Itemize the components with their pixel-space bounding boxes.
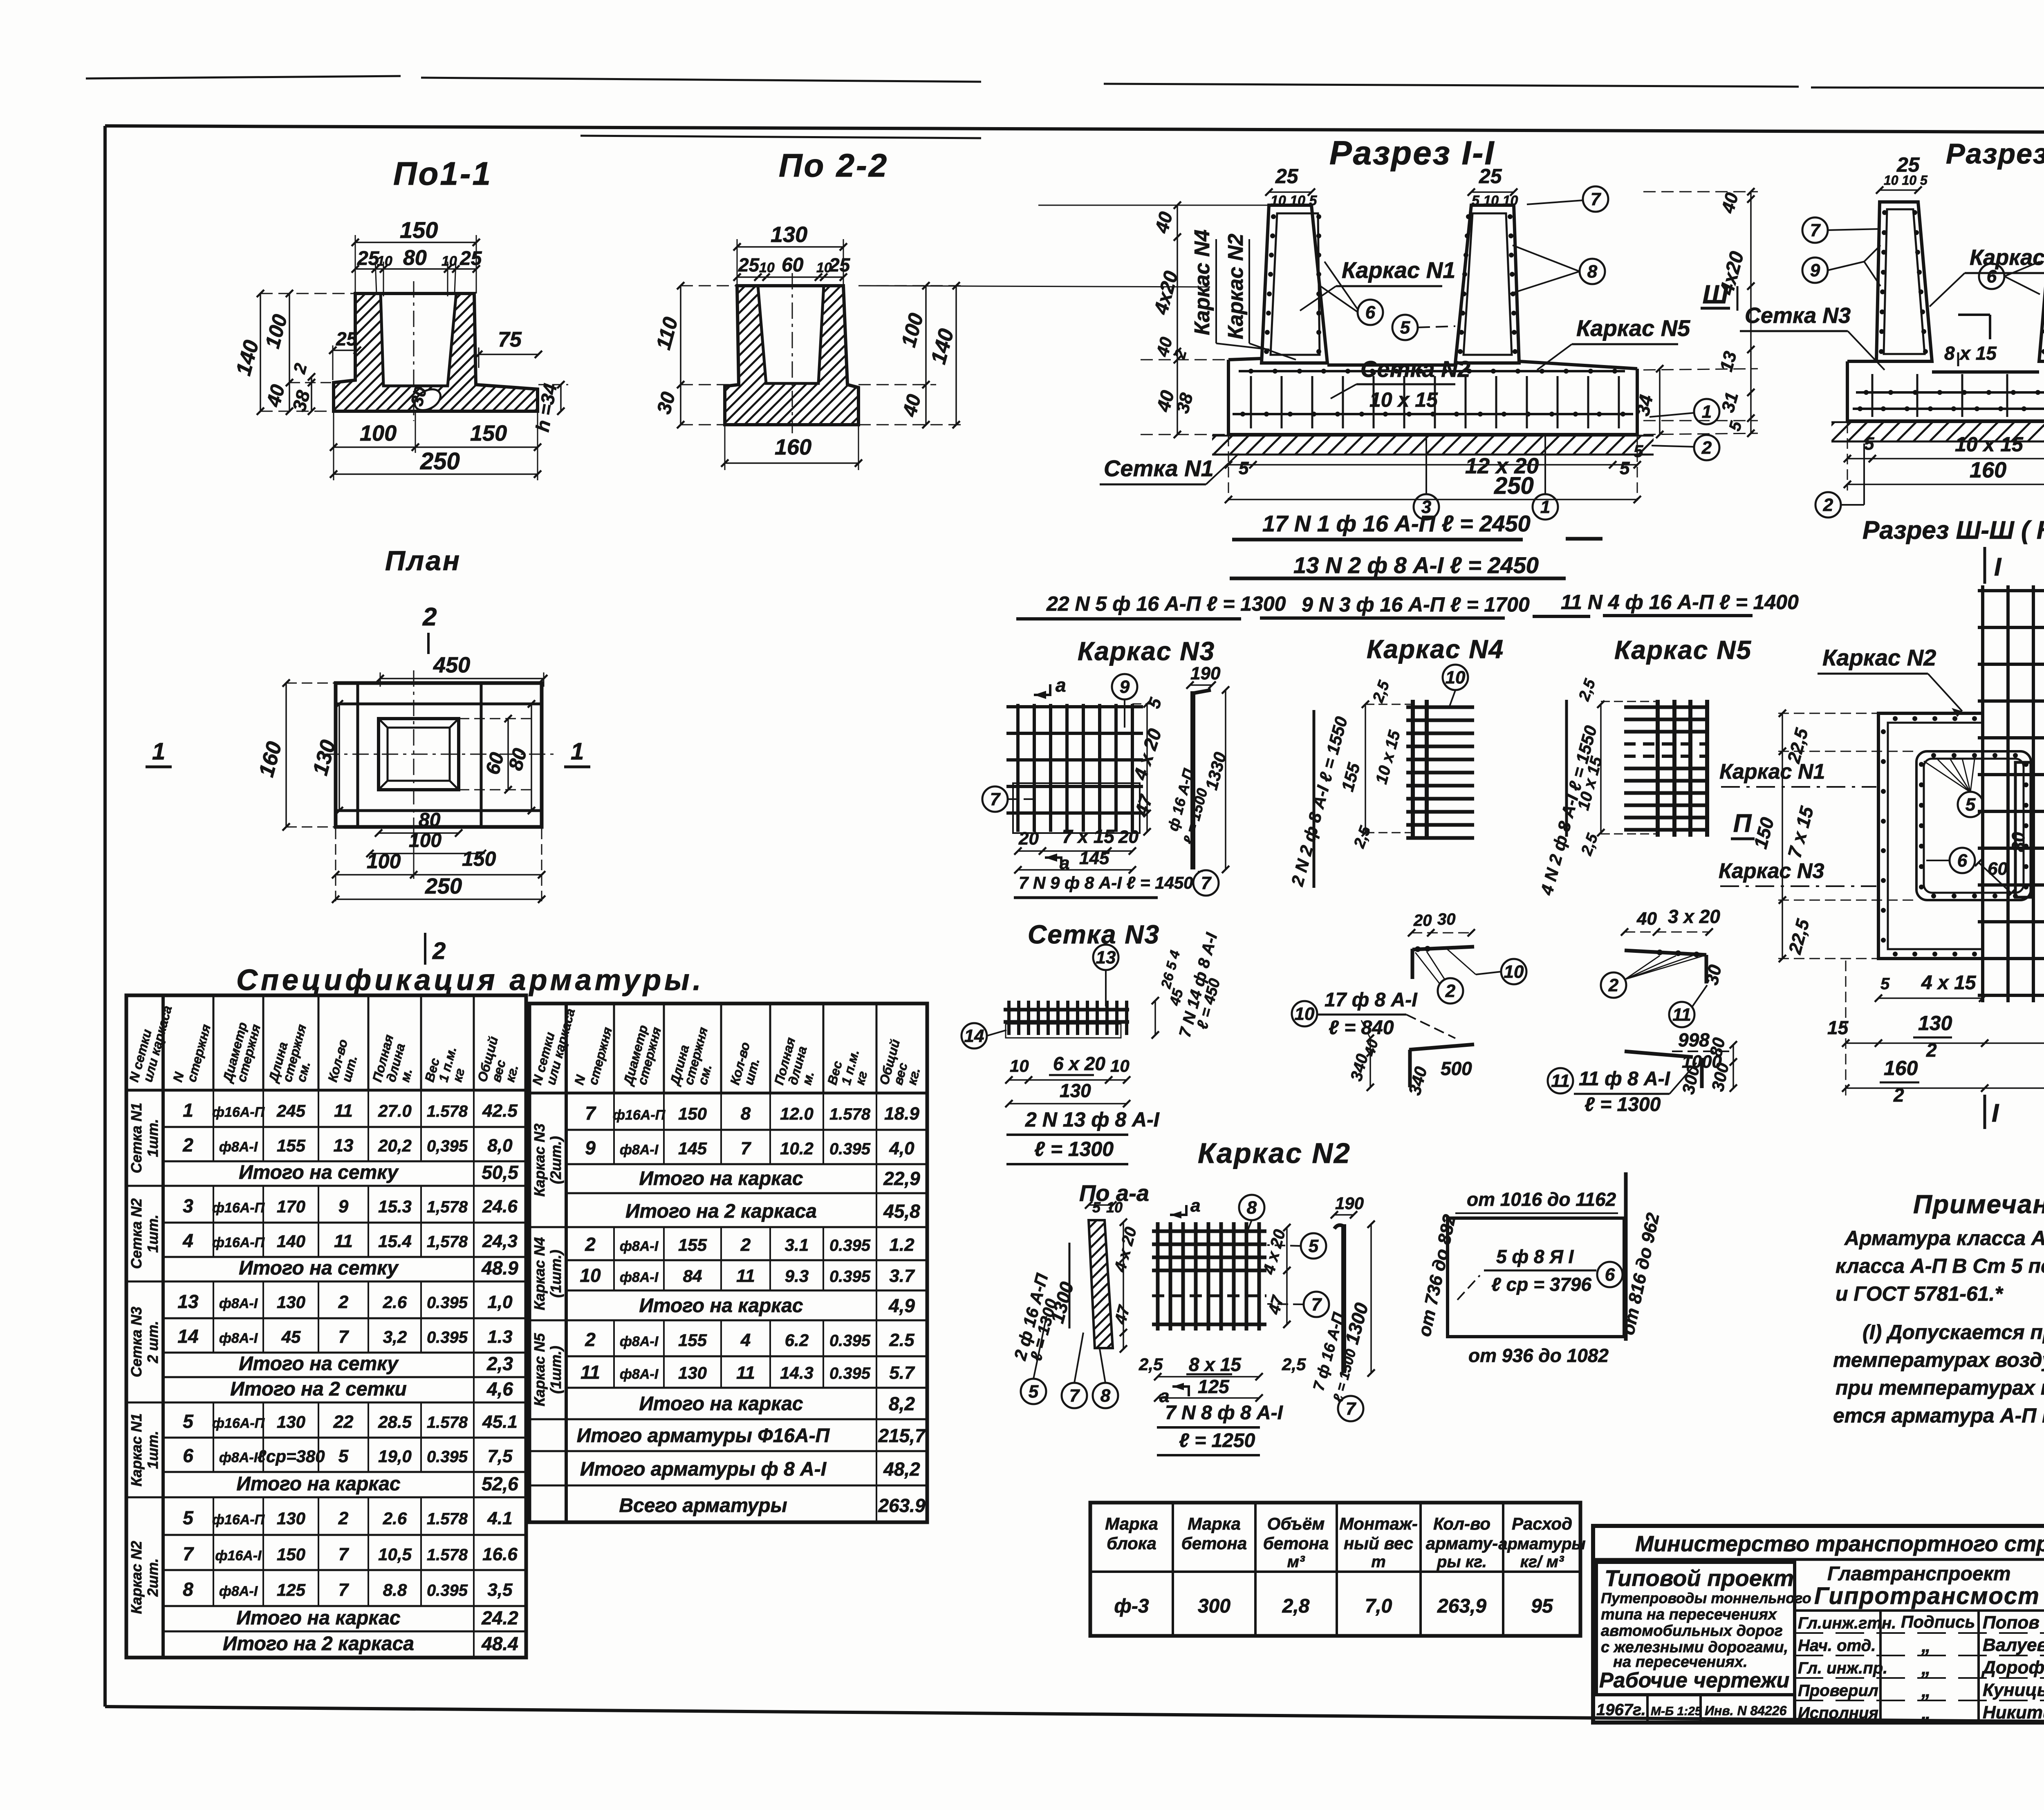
svg-text:10: 10 xyxy=(377,253,392,269)
svg-text:2: 2 xyxy=(740,1235,751,1255)
I-I leader circle 3 xyxy=(1414,494,1439,520)
svg-text:7 N 9 ф 8 А-I ℓ = 1450: 7 N 9 ф 8 А-I ℓ = 1450 xyxy=(1019,873,1193,892)
svg-text:5: 5 xyxy=(1092,1199,1101,1216)
svg-text:Всего арматуры: Всего арматуры xyxy=(619,1495,787,1517)
Каркас N2 circle 5 right xyxy=(1301,1233,1326,1259)
III-III leader circle 6 xyxy=(1950,848,1975,873)
svg-text:450: 450 xyxy=(433,653,470,677)
svg-text:3,2: 3,2 xyxy=(383,1327,407,1346)
svg-text:60: 60 xyxy=(1988,859,2008,879)
svg-text:75: 75 xyxy=(498,328,522,352)
svg-text:и ГОСТ 5781-61.*: и ГОСТ 5781-61.* xyxy=(1836,1282,2004,1305)
svg-text:7 N 8 ф 8 А-I: 7 N 8 ф 8 А-I xyxy=(1165,1402,1284,1424)
svg-text:Каркас N3: Каркас N3 xyxy=(1078,636,1215,666)
II-II left wall xyxy=(1876,202,1932,361)
План bottom dims 80 100 100 150 250 xyxy=(379,832,459,834)
svg-text:от 936 до 1082: от 936 до 1082 xyxy=(1468,1345,1609,1366)
svg-text:1.578: 1.578 xyxy=(427,1102,468,1120)
III-III bottom dims row 160/2 160/2 xyxy=(1846,1087,2044,1089)
svg-text:Расход: Расход xyxy=(1512,1514,1572,1533)
svg-text:215,7: 215,7 xyxy=(878,1425,926,1446)
I-I leader circle 8 xyxy=(1580,259,1605,284)
svg-text:100: 100 xyxy=(367,850,401,873)
svg-text:2: 2 xyxy=(1445,981,1456,1001)
svg-text:7: 7 xyxy=(1201,873,1212,893)
svg-text:13: 13 xyxy=(1096,948,1116,968)
svg-text:80: 80 xyxy=(1706,1036,1729,1058)
Сетка N3 leader circle 14 xyxy=(961,1023,987,1048)
Каркас N3 zone box xyxy=(1013,783,1140,833)
I-I top dim left wall 25 xyxy=(1269,191,1311,193)
II-II ground hatch strip xyxy=(1831,421,2044,423)
svg-text:7,5: 7,5 xyxy=(487,1446,513,1466)
svg-text:Каркас N2: Каркас N2 xyxy=(1198,1137,1351,1169)
svg-text:2: 2 xyxy=(585,1329,596,1350)
svg-text:8 x 15: 8 x 15 xyxy=(1944,343,1997,364)
svg-text:14: 14 xyxy=(964,1026,984,1046)
I-I leader circle 7 xyxy=(1583,186,1608,212)
projection line По2-2 top xyxy=(862,286,1210,287)
По1-1 bottom dims 100 150 250 xyxy=(334,446,538,448)
svg-text:П: П xyxy=(1733,809,1752,838)
svg-text:2,3: 2,3 xyxy=(486,1353,513,1374)
По2-2 centre axis xyxy=(792,273,793,433)
По1-1 dim 150 top xyxy=(355,242,476,243)
Каркас N4 mesh xyxy=(1411,700,1415,838)
svg-text:11: 11 xyxy=(334,1101,353,1121)
svg-text:Проверил: Проверил xyxy=(1798,1682,1878,1700)
svg-text:7,0: 7,0 xyxy=(1365,1595,1392,1617)
svg-text:1: 1 xyxy=(1702,402,1712,422)
svg-text:Каркас N4: Каркас N4 xyxy=(1190,230,1214,335)
svg-text:Итого на сетку: Итого на сетку xyxy=(239,1257,399,1279)
svg-text:20: 20 xyxy=(1413,912,1432,930)
svg-text:13: 13 xyxy=(177,1291,199,1312)
svg-text:Кол-во: Кол-во xyxy=(1433,1514,1490,1533)
svg-text:13: 13 xyxy=(334,1136,354,1156)
III-III section mark I top xyxy=(1983,547,1986,584)
svg-text:По1-1: По1-1 xyxy=(393,155,492,192)
svg-text:10: 10 xyxy=(1446,668,1466,688)
svg-text:1,0: 1,0 xyxy=(487,1292,513,1312)
svg-text:Сетка N3: Сетка N3 xyxy=(1028,920,1160,949)
svg-text:22,9: 22,9 xyxy=(883,1168,920,1189)
svg-text:Итого на сетку: Итого на сетку xyxy=(239,1353,399,1375)
svg-text:8: 8 xyxy=(183,1579,193,1600)
svg-text:25: 25 xyxy=(357,248,380,269)
svg-text:7: 7 xyxy=(741,1138,752,1158)
sheet border frame xyxy=(105,126,2044,133)
Каркас N2 bar circle 7 xyxy=(1338,1396,1363,1421)
По1-1 dim h2=34 xyxy=(560,385,562,411)
svg-text:ℓ = 1300: ℓ = 1300 xyxy=(1585,1094,1661,1116)
svg-text:5: 5 xyxy=(1620,458,1630,478)
svg-text:9: 9 xyxy=(1810,260,1820,280)
svg-text:1: 1 xyxy=(571,738,584,765)
svg-text:Каркас N2: Каркас N2 xyxy=(128,1541,145,1614)
III-III bottom dim 4x15 xyxy=(1878,997,1983,999)
svg-text:План: План xyxy=(385,545,461,576)
svg-text:ф8А-I: ф8А-I xyxy=(219,1331,258,1346)
svg-text:34: 34 xyxy=(1632,393,1657,418)
svg-text:4: 4 xyxy=(182,1230,193,1251)
I-I leader circle 2 right xyxy=(1694,435,1719,460)
svg-text:3.1: 3.1 xyxy=(785,1235,809,1254)
svg-text:Рабочие чертежи: Рабочие чертежи xyxy=(1599,1669,1789,1692)
svg-text:10 x 15: 10 x 15 xyxy=(1369,388,1438,411)
detail text 17ф8А-I l=840 xyxy=(1292,1001,1317,1026)
svg-text:8,2: 8,2 xyxy=(889,1393,915,1414)
svg-text:2: 2 xyxy=(1823,495,1833,515)
svg-text:Итого арматуры ф 8 А-I: Итого арматуры ф 8 А-I xyxy=(580,1458,827,1480)
svg-text:кг/ м³: кг/ м³ xyxy=(1520,1553,1564,1571)
svg-text:20,2: 20,2 xyxy=(378,1136,412,1155)
Сетка N3 mesh xyxy=(1004,1008,1129,1012)
svg-text:„: „ xyxy=(1921,1702,1931,1723)
svg-text:3: 3 xyxy=(183,1195,193,1216)
Каркас N2 circle 8 top xyxy=(1239,1195,1264,1220)
svg-text:Итого на сетку: Итого на сетку xyxy=(239,1162,399,1183)
svg-text:ф16А-П: ф16А-П xyxy=(212,1104,265,1120)
svg-text:10: 10 xyxy=(759,260,775,276)
svg-text:7 x 15: 7 x 15 xyxy=(1062,826,1115,847)
svg-text:ф16А-П: ф16А-П xyxy=(212,1235,265,1250)
detail circle 10 left xyxy=(1501,959,1526,984)
svg-text:По 2-2: По 2-2 xyxy=(779,147,888,184)
svg-text:I: I xyxy=(1994,553,2002,581)
svg-text:ется арматура А-П В Ст 5 сп: ется арматура А-П В Ст 5 сп 2. xyxy=(1833,1404,2044,1427)
II-II slab rebar xyxy=(1856,391,2044,394)
block data table grid xyxy=(1090,1503,1580,1636)
svg-text:Никитина: Никитина xyxy=(1983,1702,2044,1723)
svg-text:8.8: 8.8 xyxy=(383,1580,407,1599)
svg-text:ры кг.: ры кг. xyxy=(1437,1553,1487,1571)
svg-text:155: 155 xyxy=(678,1331,707,1350)
Каркас N3 side bar circle 7 xyxy=(1193,870,1219,896)
По1-1 dim 75 right xyxy=(479,354,538,355)
svg-text:125: 125 xyxy=(277,1580,306,1599)
svg-text:2: 2 xyxy=(1608,975,1619,995)
svg-text:48.9: 48.9 xyxy=(481,1257,518,1279)
svg-text:Каркас N3: Каркас N3 xyxy=(531,1124,548,1197)
svg-text:Итого арматуры Ф16А-П: Итого арматуры Ф16А-П xyxy=(577,1425,830,1447)
svg-text:Сетка N1: Сетка N1 xyxy=(128,1103,145,1174)
svg-text:2.6: 2.6 xyxy=(383,1293,407,1312)
svg-text:Каркас N2: Каркас N2 xyxy=(1224,234,1248,339)
III-III left dims 22,5 7x15 22,5 150 xyxy=(1782,713,1783,959)
svg-text:150: 150 xyxy=(678,1104,707,1123)
svg-text:Итого на каркас: Итого на каркас xyxy=(639,1168,803,1189)
svg-text:10: 10 xyxy=(442,253,457,269)
Каркас N3 mark a top xyxy=(1034,684,1050,695)
svg-text:24,3: 24,3 xyxy=(482,1231,518,1251)
svg-text:Каркас N1: Каркас N1 xyxy=(1719,760,1825,784)
Каркас N2 mesh xyxy=(1156,1222,1160,1331)
Каркас N3 mark a bottom xyxy=(1045,858,1061,868)
Сетка N3 leader circle 13 xyxy=(1093,945,1118,970)
svg-text:10: 10 xyxy=(1010,1056,1029,1075)
svg-text:130: 130 xyxy=(771,222,807,247)
svg-text:3,5: 3,5 xyxy=(487,1580,513,1600)
left spec table grid xyxy=(126,995,526,1658)
Каркас N2 bottom dims 2,5 8x15 2,5 125 xyxy=(1158,1376,1259,1378)
svg-text:145: 145 xyxy=(678,1139,707,1158)
svg-text:130: 130 xyxy=(277,1293,305,1312)
svg-text:ф8А-I: ф8А-I xyxy=(219,1296,258,1311)
svg-text:300: 300 xyxy=(1198,1595,1230,1617)
svg-text:0.395: 0.395 xyxy=(829,1268,871,1286)
План centre axes xyxy=(413,670,415,842)
svg-text:4: 4 xyxy=(740,1330,751,1350)
svg-text:ф16А-П: ф16А-П xyxy=(212,1416,265,1431)
svg-text:19,0: 19,0 xyxy=(378,1447,412,1466)
I-I top dim right wall 25 xyxy=(1471,191,1514,193)
detail circle 11 right xyxy=(1669,1002,1694,1027)
svg-text:8: 8 xyxy=(1587,262,1598,282)
svg-text:М-Б 1:25: М-Б 1:25 xyxy=(1651,1705,1702,1718)
svg-text:ф8А-I: ф8А-I xyxy=(219,1584,258,1599)
svg-text:Гипротрансмост: Гипротрансмост xyxy=(1814,1583,2040,1609)
Каркас N3 mesh xyxy=(1016,704,1020,832)
svg-text:1шт.: 1шт. xyxy=(144,1431,161,1469)
svg-text:5: 5 xyxy=(1309,1236,1319,1256)
svg-text:2: 2 xyxy=(432,938,446,964)
svg-text:5: 5 xyxy=(1634,441,1643,461)
I-I leader circle 5 xyxy=(1392,315,1418,340)
detail bar 10 corner shape xyxy=(1411,949,1414,979)
svg-text:140: 140 xyxy=(277,1232,305,1251)
svg-text:„: „ xyxy=(1921,1657,1931,1678)
По1-1 left dim 140 xyxy=(260,293,261,411)
svg-text:бетона: бетона xyxy=(1181,1534,1247,1553)
svg-text:Итого на 2 каркаса: Итого на 2 каркаса xyxy=(625,1201,817,1222)
svg-text:ф-3: ф-3 xyxy=(1114,1595,1149,1617)
svg-text:22: 22 xyxy=(333,1412,354,1432)
svg-text:Каркас N2: Каркас N2 xyxy=(1822,645,1936,670)
II-II right wall xyxy=(2039,202,2044,361)
II-II foundation slab xyxy=(1847,360,1876,363)
svg-text:температурах воздуха не ниж: температурах воздуха не ниже-30°С, xyxy=(1833,1349,2044,1371)
III-III wall outline plan xyxy=(1878,713,1983,959)
svg-text:Разрез I-I: Разрез I-I xyxy=(1329,134,1495,172)
svg-text:25: 25 xyxy=(738,254,760,276)
svg-text:Каркас N5: Каркас N5 xyxy=(1614,635,1752,665)
План mark 2 bottom xyxy=(424,933,426,965)
I-I/II-II shared dim column 40 4x20 13 31 5 xyxy=(1750,192,1752,433)
По2-2 concrete outline with hatch xyxy=(725,286,858,425)
svg-text:130: 130 xyxy=(1060,1080,1091,1101)
По1-1 left dims 100 40 38 2 xyxy=(289,293,290,411)
svg-text:150: 150 xyxy=(462,847,496,870)
svg-text:ф8А-I: ф8А-I xyxy=(620,1239,659,1254)
svg-text:Сетка N2: Сетка N2 xyxy=(1360,356,1470,382)
svg-text:1,578: 1,578 xyxy=(427,1198,468,1216)
svg-text:на пересечениях.: на пересечениях. xyxy=(1613,1653,1748,1671)
svg-text:класса А-П В Ст 5 пс 2: класса А-П В Ст 5 пс 2 по ГОСТ 380-71 xyxy=(1836,1254,2044,1277)
svg-text:20: 20 xyxy=(1018,829,1039,849)
svg-text:130: 130 xyxy=(1918,1012,1952,1035)
svg-text:15.4: 15.4 xyxy=(378,1232,412,1251)
svg-text:0.395: 0.395 xyxy=(829,1364,871,1382)
svg-text:5: 5 xyxy=(1029,1382,1039,1402)
svg-text:ф8А-I: ф8А-I xyxy=(620,1270,659,1285)
svg-text:Итого на 2 сетки: Итого на 2 сетки xyxy=(230,1378,407,1400)
svg-text:„: „ xyxy=(1921,1635,1931,1656)
svg-text:ф8А-I: ф8А-I xyxy=(219,1139,258,1155)
svg-text:Сетка N2: Сетка N2 xyxy=(128,1198,145,1269)
svg-text:а: а xyxy=(1190,1196,1200,1216)
Каркас N2 right bar xyxy=(1341,1224,1346,1373)
По а-а circles 5 7 8 xyxy=(1021,1379,1046,1404)
title block outer frame xyxy=(1593,1526,2044,1723)
svg-text:7: 7 xyxy=(1346,1399,1357,1419)
II-II leader circle 7 xyxy=(1802,217,1828,243)
svg-text:6: 6 xyxy=(1605,1265,1615,1285)
По а-а wall strip section xyxy=(1089,1220,1113,1348)
svg-text:Нач. отд.: Нач. отд. xyxy=(1798,1637,1876,1655)
svg-text:190: 190 xyxy=(1335,1194,1364,1213)
План inner grid lines xyxy=(356,683,359,827)
svg-text:20: 20 xyxy=(1118,827,1139,847)
svg-text:2: 2 xyxy=(338,1292,349,1312)
bar 6 envelope rect xyxy=(1448,1218,1624,1337)
svg-text:150: 150 xyxy=(400,217,438,243)
svg-text:9 N 3 ф 16 А-П ℓ = 1700: 9 N 3 ф 16 А-П ℓ = 1700 xyxy=(1302,593,1530,616)
svg-text:3.7: 3.7 xyxy=(889,1266,915,1286)
svg-text:8: 8 xyxy=(741,1104,751,1124)
svg-text:Каркас N1: Каркас N1 xyxy=(128,1414,145,1487)
svg-text:5: 5 xyxy=(1239,458,1249,478)
svg-text:ный вес: ный вес xyxy=(1344,1534,1413,1553)
svg-text:автомобильных дорог: автомобильных дорог xyxy=(1601,1622,1783,1640)
План outer rect xyxy=(336,683,542,827)
svg-text:45: 45 xyxy=(281,1327,301,1346)
svg-text:0.395: 0.395 xyxy=(829,1237,871,1254)
Каркас N3 side bar xyxy=(1190,684,1212,686)
svg-text:11: 11 xyxy=(1672,1005,1691,1025)
svg-text:1.2: 1.2 xyxy=(889,1235,914,1255)
right spec table rows xyxy=(566,1129,927,1131)
svg-text:24.2: 24.2 xyxy=(481,1607,518,1629)
III-III mesh Сетка N5 grid xyxy=(1981,585,1984,1002)
I-I leader circle 1 bottom xyxy=(1533,494,1558,520)
svg-text:Арматура класса А-I Ст 3 пс: Арматура класса А-I Ст 3 пс3 и xyxy=(1844,1227,2044,1250)
III-III section mark I bottom xyxy=(1983,1095,1986,1129)
svg-text:Попов: Попов xyxy=(1983,1613,2040,1633)
svg-text:0.395: 0.395 xyxy=(829,1332,871,1350)
svg-text:10: 10 xyxy=(580,1265,601,1286)
svg-text:Сетка N1: Сетка N1 xyxy=(1104,455,1214,481)
svg-text:5: 5 xyxy=(1864,434,1874,454)
svg-text:500: 500 xyxy=(1441,1058,1472,1079)
svg-text:Сетка N3: Сетка N3 xyxy=(1745,303,1851,328)
svg-text:Итого на каркас: Итого на каркас xyxy=(236,1473,400,1495)
svg-text:Инв. N 84226: Инв. N 84226 xyxy=(1705,1703,1787,1718)
I-I leader circle 6 xyxy=(1358,300,1383,325)
svg-text:1шт.: 1шт. xyxy=(144,1119,161,1157)
svg-text:Дорофеев: Дорофеев xyxy=(1981,1658,2044,1678)
svg-text:Каркас N3: Каркас N3 xyxy=(1719,859,1824,883)
svg-text:ф16А-I: ф16А-I xyxy=(215,1548,262,1564)
svg-text:м³: м³ xyxy=(1287,1553,1306,1571)
svg-text:Каркас N4: Каркас N4 xyxy=(1367,634,1504,664)
По2-2 cavity xyxy=(758,286,824,383)
Каркас N2 mark a bottom xyxy=(1172,1387,1189,1396)
svg-text:7: 7 xyxy=(585,1102,596,1124)
svg-text:0,395: 0,395 xyxy=(427,1137,468,1155)
svg-text:998: 998 xyxy=(1678,1029,1710,1051)
svg-text:Гл.инж.гтн.: Гл.инж.гтн. xyxy=(1798,1614,1896,1632)
svg-text:1: 1 xyxy=(152,738,165,765)
svg-text:250: 250 xyxy=(1494,473,1534,499)
svg-text:2: 2 xyxy=(1893,1084,1904,1106)
svg-text:10: 10 xyxy=(1295,1004,1315,1024)
svg-text:10 10 5: 10 10 5 xyxy=(1884,173,1928,188)
svg-text:125: 125 xyxy=(1198,1376,1230,1397)
По2-2 dim 25 10 60 10 25 xyxy=(737,276,843,278)
Сетка N3 dims 10 6x20 10 130 xyxy=(1009,1079,1127,1081)
svg-text:(1шт.): (1шт.) xyxy=(547,1346,564,1394)
detail bar 11 shape xyxy=(1625,950,1706,955)
svg-text:1: 1 xyxy=(183,1100,193,1121)
svg-text:0.395: 0.395 xyxy=(427,1448,468,1466)
svg-text:50,5: 50,5 xyxy=(482,1162,519,1183)
svg-text:7: 7 xyxy=(1810,220,1821,240)
svg-text:190: 190 xyxy=(1190,663,1221,683)
Каркас N3 bottom dims 20 7x15 20 145 xyxy=(1018,850,1132,852)
svg-text:6 x 20: 6 x 20 xyxy=(1053,1053,1105,1074)
svg-text:4,0: 4,0 xyxy=(889,1138,914,1158)
Каркас N2 right dims 4x20 47 xyxy=(1286,1228,1288,1324)
svg-text:Марка: Марка xyxy=(1105,1514,1158,1533)
svg-text:7: 7 xyxy=(338,1327,350,1347)
Каркас N2 circle 7 right xyxy=(1304,1292,1329,1317)
III-III bottom dims row 15 130/2 10x15/2 5 xyxy=(1846,1042,2044,1044)
svg-text:150: 150 xyxy=(277,1545,305,1564)
План left dims 160 130 xyxy=(285,683,287,827)
svg-text:2: 2 xyxy=(182,1134,193,1156)
По2-2 bottom dim 160 xyxy=(725,462,858,464)
svg-text:25: 25 xyxy=(459,248,482,269)
svg-text:6: 6 xyxy=(1365,302,1376,323)
svg-text:Главтранспроект: Главтранспроект xyxy=(1827,1563,2011,1585)
План inner square xyxy=(379,719,459,790)
detail circle 2 right xyxy=(1601,972,1626,998)
svg-text:2: 2 xyxy=(1701,438,1712,458)
svg-text:ф8А-I: ф8А-I xyxy=(620,1334,659,1349)
II-II leader circle 9 xyxy=(1802,258,1828,283)
Каркас N2 mark a top xyxy=(1170,1205,1186,1215)
svg-text:150: 150 xyxy=(470,421,507,446)
right spec table grid xyxy=(529,1004,927,1522)
svg-text:Путепроводы тоннельного: Путепроводы тоннельного xyxy=(1601,1590,1811,1606)
svg-text:9: 9 xyxy=(585,1137,596,1158)
svg-text:ℓ = 1300: ℓ = 1300 xyxy=(1034,1138,1114,1160)
svg-text:Спецификация арматуры.: Спецификация арматуры. xyxy=(236,964,704,997)
I-I left dim stack xyxy=(1177,205,1178,435)
svg-text:Объём: Объём xyxy=(1267,1514,1325,1533)
svg-text:2,5: 2,5 xyxy=(1282,1355,1306,1374)
svg-text:при температурах ниже-30°С п: при температурах ниже-30°С применя- xyxy=(1836,1376,2044,1399)
svg-text:ф8А-I: ф8А-I xyxy=(219,1450,258,1465)
title block ministry row xyxy=(1593,1558,2044,1561)
III-III inner cage xyxy=(1916,751,2031,900)
svg-text:245: 245 xyxy=(276,1101,306,1120)
svg-text:2: 2 xyxy=(1926,1039,1937,1061)
svg-text:48,2: 48,2 xyxy=(883,1458,920,1480)
svg-text:2: 2 xyxy=(422,603,437,631)
svg-text:4,9: 4,9 xyxy=(888,1295,915,1316)
